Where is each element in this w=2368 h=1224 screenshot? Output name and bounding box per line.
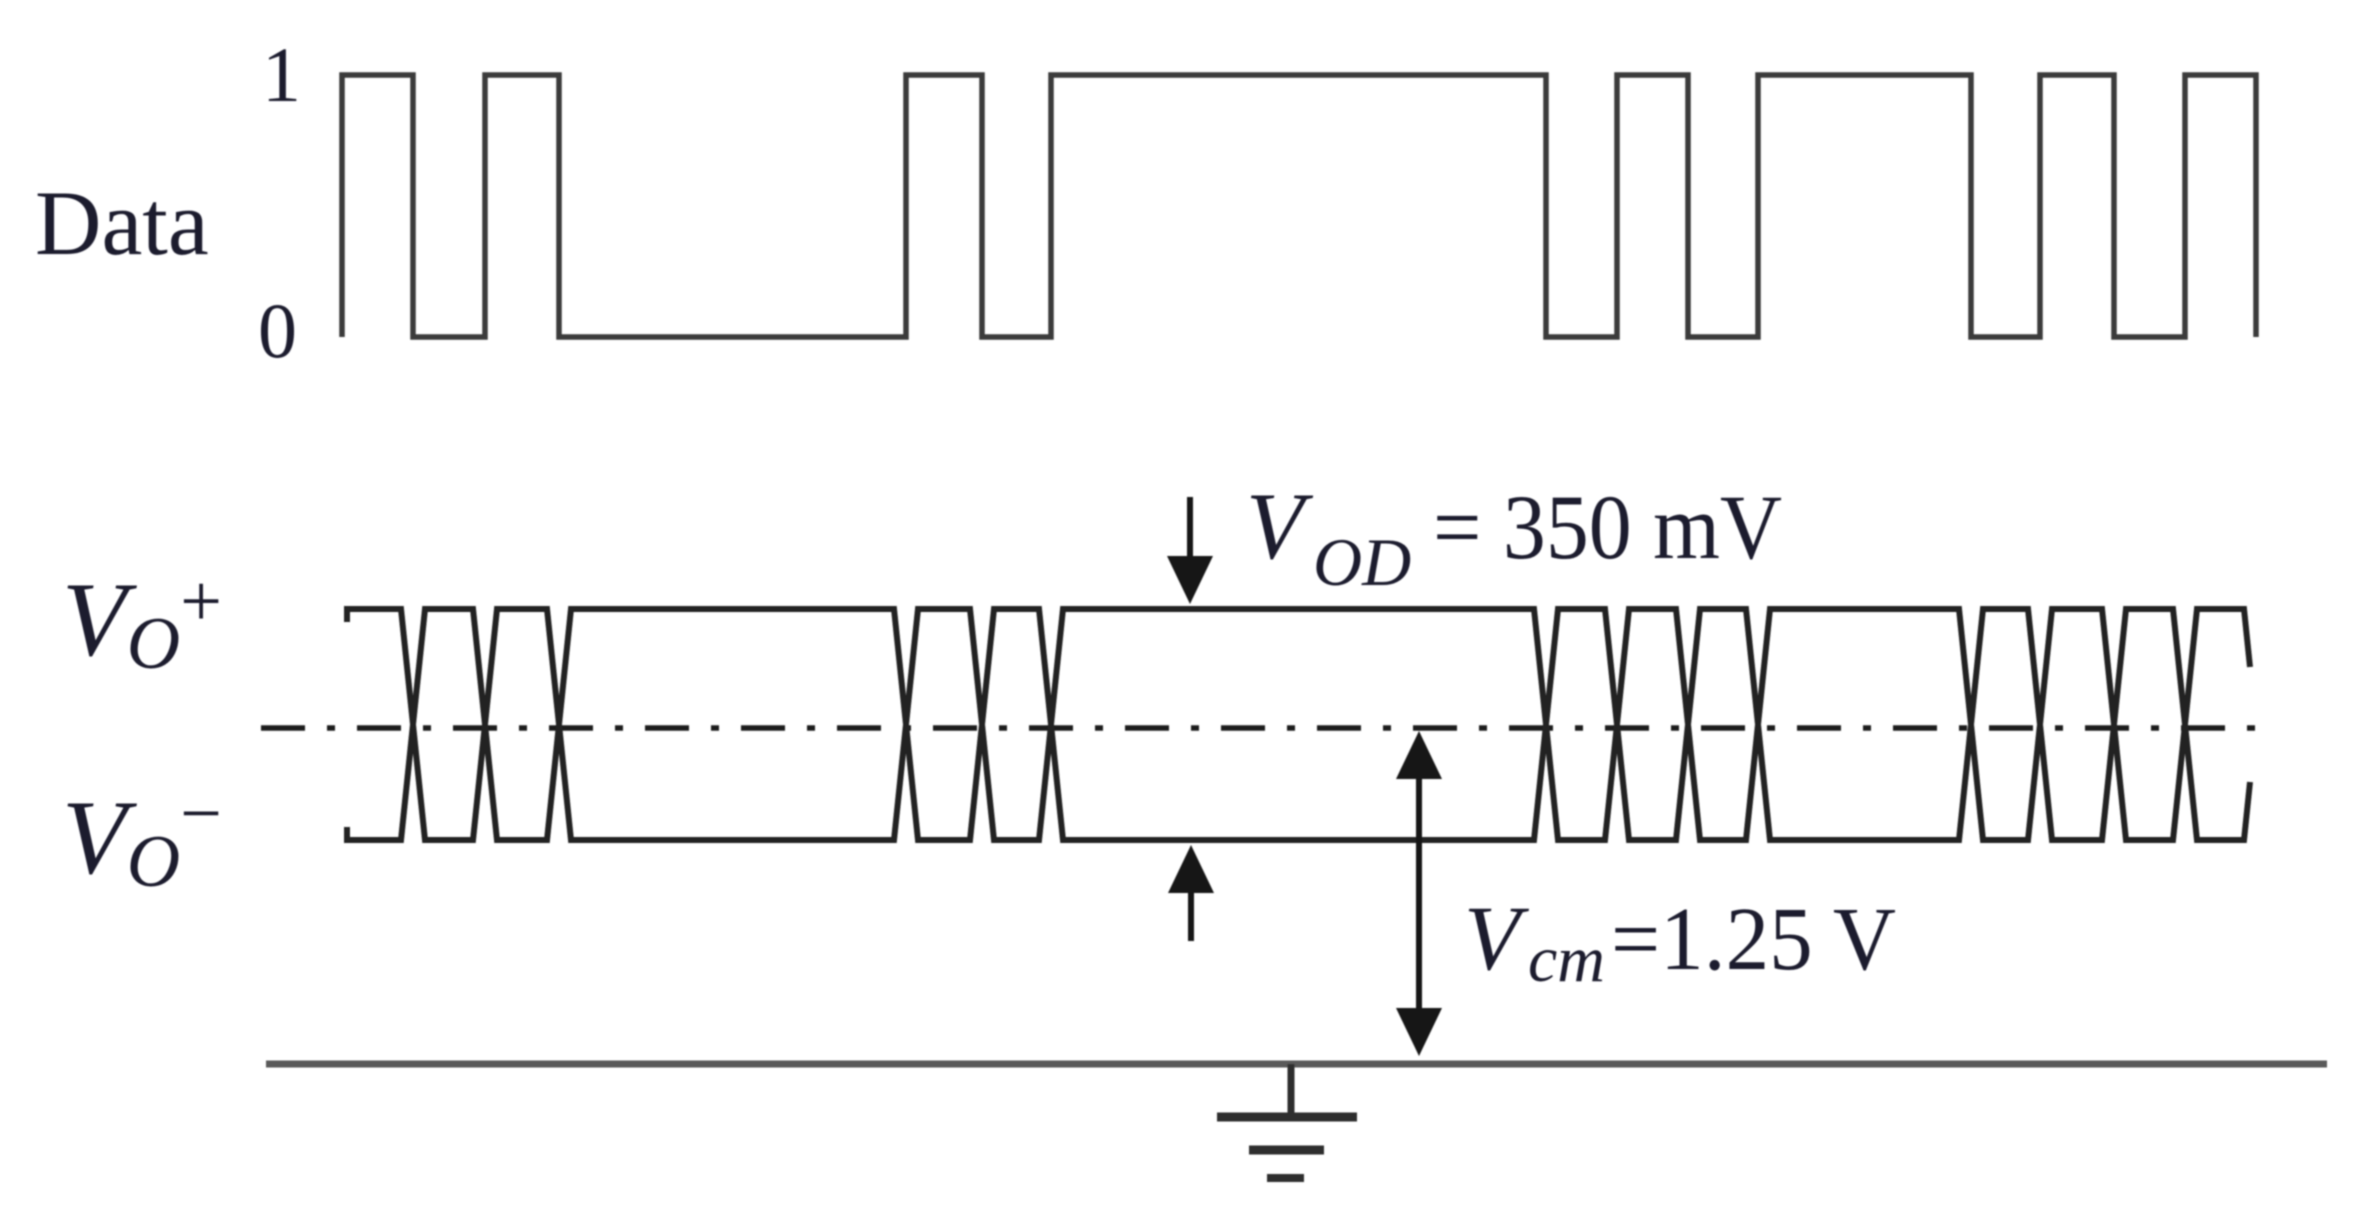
node VOD annotation up arrow bbox=[1188, 890, 1194, 941]
node VOD annotation down arrow bbox=[1187, 497, 1193, 562]
svg-text:1: 1 bbox=[262, 31, 301, 118]
svg-text:Data: Data bbox=[35, 172, 209, 274]
svg-text:VO+: VO+ bbox=[62, 561, 222, 685]
svg-text:Vcm=1.25 V: Vcm=1.25 V bbox=[1464, 887, 1896, 996]
wire VO+ differential trace bbox=[347, 609, 2250, 840]
svg-text:VO−: VO− bbox=[62, 773, 222, 903]
ground symbol bbox=[1217, 1064, 1357, 1178]
wire common-mode dash-dot center line bbox=[261, 725, 2266, 731]
svg-text:VOD= 350 mV: VOD= 350 mV bbox=[1246, 473, 1782, 600]
wire data waveform trace bbox=[342, 75, 2256, 337]
wire VO- differential trace bbox=[347, 609, 2250, 840]
svg-text:0: 0 bbox=[258, 287, 297, 374]
wire Vcm measurement double arrow bbox=[1416, 750, 1422, 1035]
wire ground reference line bbox=[266, 1061, 2327, 1068]
